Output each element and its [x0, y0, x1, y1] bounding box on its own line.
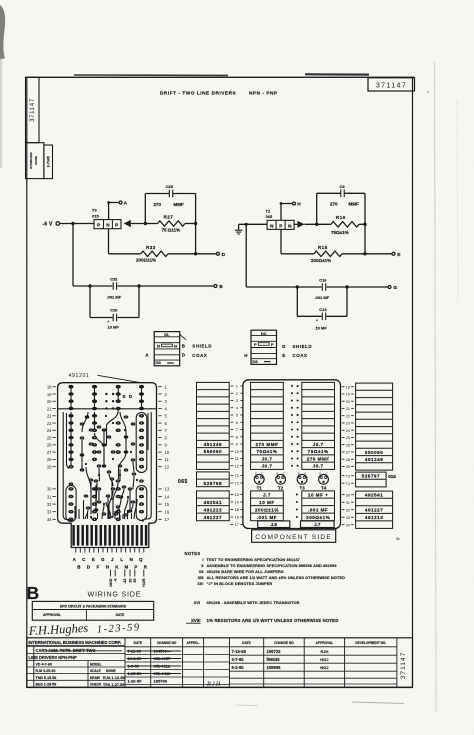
svg-text:3: 3: [236, 398, 238, 403]
node A terminal: [119, 201, 122, 204]
svg-text:RJA 1-12-58: RJA 1-12-58: [103, 676, 125, 680]
svg-text:J0.7: J0.7: [261, 456, 272, 461]
svg-text:21: 21: [346, 406, 350, 411]
svg-text:NOTES: NOTES: [185, 551, 201, 556]
svg-text:.001 MF: .001 MF: [315, 295, 330, 300]
svg-text:526798: 526798: [204, 481, 222, 486]
svg-text:30: 30: [47, 487, 52, 492]
component side board outline: [243, 380, 341, 529]
right date/change/approval entries: [232, 649, 329, 670]
wire down to C16 row: [245, 224, 247, 287]
svg-text:015: 015: [388, 474, 396, 479]
svg-text:DPD CIRCUIT & PACKAGING STANDA: DPD CIRCUIT & PACKAGING STANDARD: [60, 604, 127, 608]
svg-text:H: H: [244, 353, 247, 358]
svg-text:E: E: [92, 557, 95, 562]
wiring side board outline: [58, 383, 157, 548]
component side inner left ladder rows 13-16: [251, 491, 284, 521]
svg-text:15: 15: [235, 507, 239, 512]
svg-text:27: 27: [47, 450, 52, 455]
svg-text:31: 31: [346, 500, 350, 505]
svg-text:P: P: [254, 342, 257, 347]
wire C14 loop right vertical: [346, 287, 348, 316]
svg-text:3-7-60: 3-7-60: [232, 657, 245, 662]
svg-text:G: G: [282, 344, 286, 349]
transistor T3 (PNP box): [94, 220, 121, 229]
title block outer frame: [27, 638, 413, 687]
svg-text:SHIELD: SHIELD: [293, 344, 313, 349]
component side right outer stack rows 30-34: [356, 491, 393, 528]
svg-text:1-23-59: 1-23-59: [97, 622, 141, 635]
svg-text:J.8: J.8: [271, 522, 278, 527]
svg-text:5k: 5k: [396, 537, 400, 541]
svg-text:G: G: [393, 285, 397, 291]
wire C32 row right to node B: [117, 285, 214, 287]
svg-text:200Ω±1%: 200Ω±1%: [136, 258, 156, 263]
DPD circuit & packaging standard table: [32, 601, 153, 620]
junction dot C30 loop left: [88, 284, 91, 287]
svg-text:T1: T1: [235, 473, 240, 478]
svg-text:-6 V: -6 V: [43, 222, 53, 228]
svg-text:E: E: [298, 472, 300, 476]
svg-text:108906: 108906: [267, 665, 282, 670]
svg-text:16: 16: [165, 510, 170, 515]
connector block DL (left): [154, 332, 180, 366]
component side right outer stack rows 18-29: [356, 383, 393, 470]
svg-text:NONE: NONE: [106, 669, 117, 673]
svg-text:29: 29: [47, 464, 52, 469]
scan artifact: doubled top edge line: [74, 74, 228, 76]
svg-text:J0.7: J0.7: [313, 442, 324, 447]
wire C9 loop right vertical: [364, 193, 366, 254]
svg-text:L: L: [120, 557, 123, 562]
svg-text:J.7: J.7: [263, 492, 271, 497]
component side transistors T1-T4: [254, 472, 328, 491]
svg-text:T4: T4: [321, 486, 327, 491]
svg-text:75: 75: [162, 228, 168, 233]
connector pin letters row 1: [73, 557, 143, 562]
svg-text:12: 12: [235, 463, 239, 468]
svg-text:270 MMF: 270 MMF: [307, 456, 330, 461]
component side left outer stack rows 13-16: [197, 491, 230, 521]
svg-text:491298 - ASSEMBLE WITH JEDEC T: 491298 - ASSEMBLE WITH JEDEC TRANSISTOR: [207, 600, 300, 605]
svg-text:17: 17: [165, 517, 170, 522]
svg-text:C28: C28: [166, 184, 174, 189]
connector lead ticks: [76, 548, 144, 553]
COMPONENT SIDE caption box: [252, 530, 336, 543]
svg-text:32: 32: [346, 507, 350, 512]
svg-text:550090: 550090: [365, 450, 383, 455]
svg-text:C: C: [283, 472, 285, 476]
svg-text:R10: R10: [336, 215, 346, 220]
junction dot R10/loop: [363, 223, 366, 226]
wire T3 base to node A: [108, 203, 110, 220]
svg-text:+12R: +12R: [142, 578, 146, 587]
jumper J.8 box: [258, 521, 290, 528]
svg-text:TND 5-15-58: TND 5-15-58: [36, 676, 57, 680]
svg-text:J0.7: J0.7: [261, 464, 272, 469]
svg-text:T2: T2: [266, 208, 271, 213]
wire C14 row left: [297, 315, 321, 317]
svg-text:491227: 491227: [204, 515, 222, 520]
svg-text:33: 33: [346, 515, 350, 520]
svg-text:TPA 1-27-59: TPA 1-27-59: [103, 683, 124, 687]
svg-text:N: N: [130, 557, 133, 562]
top right drawing number box 371147: [368, 78, 415, 91]
svg-text:28: 28: [346, 457, 350, 462]
component side pin numbers 1-17 with T1/T2: [231, 384, 244, 528]
svg-text:DATE: DATE: [116, 613, 126, 617]
svg-text:13: 13: [165, 487, 170, 492]
wire lower lead to R15: [281, 253, 314, 255]
svg-text:16: 16: [235, 515, 239, 520]
svg-text:7: 7: [236, 427, 238, 432]
svg-text:75Ω±1%: 75Ω±1%: [331, 230, 349, 235]
junction dot loop/R15 wire: [363, 252, 366, 255]
wire C28 top right: [173, 193, 196, 195]
svg-text:24: 24: [47, 428, 52, 433]
svg-text:E: E: [319, 472, 321, 476]
svg-text:J0.7: J0.7: [313, 464, 324, 469]
title block horizontal lines (left/middle): [27, 647, 397, 685]
svg-text:C32: C32: [110, 277, 118, 282]
drawing border frame: [27, 77, 413, 687]
svg-text:D: D: [222, 252, 226, 258]
wire T3 lower lead: [108, 229, 110, 254]
svg-text:1% RESISTORS ARE 1/8 WATT UNLE: 1% RESISTORS ARE 1/8 WATT UNLESS OTHERWI…: [207, 618, 339, 623]
component side right outer stack T3/T4: [356, 472, 387, 487]
wire ground to T2: [239, 223, 268, 225]
svg-text:26: 26: [346, 442, 350, 447]
node H terminal: [293, 202, 296, 205]
scan specks bottom: [352, 702, 404, 704]
wire R15 to node E: [342, 253, 392, 255]
capacitor C14: [321, 313, 323, 321]
node E terminal: [392, 252, 395, 255]
svg-text:B: B: [219, 284, 223, 290]
junction dot C30 loop right: [137, 284, 140, 287]
svg-text:MMF: MMF: [349, 202, 359, 207]
svg-text:492541: 492541: [204, 500, 222, 505]
svg-text:C16: C16: [319, 278, 327, 283]
svg-text:10: 10: [165, 450, 170, 455]
svg-text:065: 065: [178, 479, 188, 485]
svg-text:A: A: [124, 201, 128, 207]
svg-text:CODE: CODE: [34, 156, 38, 165]
resistor R33: [141, 251, 168, 256]
resistor R15: [314, 251, 342, 256]
svg-text:T2: T2: [278, 486, 284, 491]
svg-text:XVIII: XVIII: [191, 618, 201, 623]
title block vertical dividers: [34, 638, 397, 687]
junction dot at A corner: [107, 201, 110, 204]
svg-text:“J” IN BLOCK DENOTES JUMPER: “J” IN BLOCK DENOTES JUMPER: [207, 581, 273, 586]
svg-text:2-7045: 2-7045: [46, 156, 50, 167]
svg-text:DS: DS: [155, 360, 161, 365]
svg-text:5: 5: [236, 413, 238, 418]
svg-text:36: 36: [133, 579, 137, 583]
svg-text:491249: 491249: [204, 442, 222, 447]
svg-text:f06539: f06539: [267, 657, 281, 662]
svg-text:25: 25: [47, 435, 52, 440]
svg-text:G: G: [101, 557, 105, 562]
wiring side pin numbers 18-34 (left): [47, 385, 56, 523]
svg-text:270: 270: [154, 202, 162, 207]
svg-text:200Ω±1%: 200Ω±1%: [306, 515, 330, 520]
svg-text:23: 23: [47, 421, 52, 426]
left edge box: 2-7045 (rotated): [44, 145, 53, 179]
wire C30 loop right vertical: [138, 286, 140, 318]
svg-text:10 MF: 10 MF: [108, 325, 120, 330]
svg-text:APPROVAL: APPROVAL: [316, 641, 334, 645]
svg-text:CHANGE NO: CHANGE NO: [274, 641, 294, 645]
svg-text:32: 32: [47, 502, 52, 507]
svg-text:26: 26: [47, 443, 52, 448]
svg-text:C14: C14: [319, 307, 327, 312]
wire R27 to loop: [185, 223, 196, 225]
svg-text:SCALE: SCALE: [90, 669, 101, 673]
svg-text:015: 015: [92, 213, 99, 218]
wire R33 to node D: [168, 253, 216, 255]
svg-text:C: C: [326, 472, 328, 476]
svg-text:7-15-59: 7-15-59: [232, 649, 247, 654]
wire C9 top left: [317, 192, 341, 194]
svg-text:+: +: [107, 320, 109, 324]
svg-text:F: F: [97, 565, 100, 570]
svg-text:DRAW: DRAW: [90, 676, 100, 680]
svg-text:T3: T3: [92, 208, 97, 213]
svg-text:RJH: RJH: [206, 680, 222, 688]
svg-text:065: 065: [266, 214, 273, 219]
svg-text:2: 2: [236, 391, 238, 396]
junction dot C14 loop left: [296, 285, 299, 288]
svg-text:25: 25: [346, 435, 350, 440]
wiring side copper pads: [68, 385, 144, 521]
svg-text:491227: 491227: [365, 508, 383, 513]
svg-text:R33: R33: [146, 245, 156, 250]
card edge connector fingers: [74, 525, 147, 546]
svg-text:P: P: [115, 223, 118, 228]
capacitor C32: [112, 282, 114, 290]
svg-text:M: M: [125, 565, 129, 570]
scan artifact: left edge smear: [0, 5, 5, 60]
svg-text:TEST TO ENGINEERING SPECIFICAT: TEST TO ENGINEERING SPECIFICATION 891147: [207, 557, 300, 562]
wire C9 loop left vertical: [316, 193, 318, 224]
svg-text:CHECK: CHECK: [90, 683, 102, 687]
svg-text:ALL RESISTORS ARE 1/2 WATT AND: ALL RESISTORS ARE 1/2 WATT AND ±5% UNLES…: [207, 575, 346, 580]
svg-text:ASSEMBLE TO ENGINEERING SPECIF: ASSEMBLE TO ENGINEERING SPECIFICATION 89…: [207, 563, 338, 568]
svg-text:SHIELD: SHIELD: [192, 344, 212, 349]
svg-text:WIRING SIDE: WIRING SIDE: [88, 590, 142, 599]
scan artifact: faint right vertical streak: [435, 62, 437, 712]
svg-text:20: 20: [47, 399, 52, 404]
svg-text:371147: 371147: [400, 652, 407, 680]
svg-text:6-2-60: 6-2-60: [232, 665, 245, 670]
wire lower lead to R33: [109, 253, 141, 255]
svg-text:30: 30: [128, 579, 132, 583]
wire C28 top left: [145, 193, 169, 195]
svg-text:N: N: [157, 343, 160, 348]
svg-text:17: 17: [235, 522, 239, 527]
svg-text:21: 21: [47, 406, 52, 411]
junction dot R27/loop: [194, 222, 197, 225]
svg-text:DATE: DATE: [242, 641, 250, 645]
left edge box: drawing number 371147 (rotated): [26, 77, 40, 142]
svg-text:C9: C9: [340, 184, 346, 189]
wire C30 row left: [90, 317, 112, 319]
T3 emitter arrow: [124, 220, 131, 227]
svg-text:E: E: [276, 472, 278, 476]
svg-text:T3: T3: [346, 473, 351, 478]
wire T2 lower lead: [280, 229, 282, 253]
svg-text:I: I: [202, 557, 203, 562]
svg-text:STANDARD: STANDARD: [29, 151, 33, 168]
svg-text:75Ω±1%: 75Ω±1%: [256, 449, 277, 454]
resistor R10: [331, 222, 359, 227]
svg-text:270: 270: [330, 202, 338, 207]
svg-text:371147: 371147: [30, 98, 36, 122]
junction dot C32 branch: [71, 222, 74, 225]
leader line to B: [180, 334, 186, 340]
svg-text:10 MF: 10 MF: [259, 500, 275, 505]
svg-text:R27: R27: [164, 214, 174, 219]
svg-text:34: 34: [47, 517, 52, 522]
svg-text:E: E: [282, 353, 285, 358]
svg-text:19: 19: [346, 392, 350, 397]
junction dot loop/R33 wire: [194, 252, 197, 255]
junction dot C28 loop: [144, 222, 147, 225]
svg-text:DS: DS: [252, 359, 258, 364]
svg-text:492541: 492541: [365, 493, 383, 498]
wiring side pin numbers 1-17 (right): [158, 385, 170, 523]
wire down to C32 row: [72, 224, 74, 287]
voltage labels under connector: [109, 570, 146, 588]
svg-text:DC: DC: [261, 331, 267, 336]
svg-text:11: 11: [165, 457, 170, 462]
svg-text:-6: -6: [114, 579, 118, 582]
wiring side traces: [58, 386, 157, 522]
svg-text:P: P: [134, 565, 137, 570]
svg-text:T3: T3: [300, 486, 306, 491]
svg-text:C: C: [304, 472, 306, 476]
svg-text:270 MMF: 270 MMF: [255, 442, 278, 447]
svg-text:22: 22: [346, 413, 350, 418]
transistor T2 (NPN box): [267, 220, 294, 229]
svg-text:-12: -12: [123, 579, 127, 584]
svg-text:.001 MF: .001 MF: [257, 515, 277, 520]
wire T2 base to node H: [280, 204, 282, 221]
svg-text:COAX: COAX: [192, 353, 207, 358]
wire R10 to loop: [359, 223, 365, 225]
svg-text:DATE: DATE: [134, 641, 142, 645]
component side pin numbers 18-34 with T3/T4: [342, 384, 354, 527]
svg-text:550090: 550090: [204, 449, 222, 454]
wire C16 row left: [246, 286, 321, 288]
svg-text:6: 6: [236, 420, 238, 425]
svg-text:LINE DRIVERS NPN-PNP: LINE DRIVERS NPN-PNP: [29, 655, 77, 660]
svg-text:APPRO..: APPRO..: [187, 641, 200, 645]
wire -6V to T3: [59, 223, 94, 225]
svg-text:8: 8: [236, 434, 238, 439]
svg-text:COAX: COAX: [293, 353, 308, 358]
svg-text:106723: 106723: [267, 649, 282, 654]
svg-text:18: 18: [346, 384, 350, 389]
wire C16 row right to node G: [327, 286, 389, 288]
junction dot at H corner: [280, 202, 283, 205]
svg-text:23: 23: [346, 421, 350, 426]
node D terminal: [216, 252, 219, 255]
svg-text:RJH: RJH: [320, 649, 328, 654]
svg-text:12: 12: [165, 464, 170, 469]
component side left outer stack T1/T2: [197, 472, 230, 487]
svg-text:491213: 491213: [365, 515, 383, 520]
svg-text:Ω±1%: Ω±1%: [168, 228, 181, 233]
jumper J.7 box: [301, 521, 335, 528]
component side inner right ladder rows 1-12: [302, 382, 335, 469]
svg-text:185798: 185798: [154, 678, 168, 683]
svg-text:10 MF: 10 MF: [316, 325, 328, 330]
svg-text:P: P: [279, 223, 282, 228]
wire C14 row right: [327, 315, 348, 317]
svg-text:XVI: XVI: [194, 600, 200, 605]
svg-text:75Ω±1%: 75Ω±1%: [308, 449, 329, 454]
component side inner left ladder rows 1-12: [251, 382, 284, 469]
svg-text:371147: 371147: [376, 83, 407, 90]
svg-text:GND: GND: [109, 578, 113, 587]
wiring side via dots: [85, 415, 138, 518]
svg-text:9: 9: [236, 442, 238, 447]
svg-text:DL: DL: [164, 332, 170, 337]
T2 emitter arrow: [297, 221, 304, 228]
svg-text:491201: 491201: [69, 373, 90, 379]
wire C28 loop left vertical: [144, 194, 146, 224]
node B terminal: [214, 285, 217, 288]
svg-text:APPROVAL: APPROVAL: [43, 613, 61, 617]
svg-text:C30: C30: [110, 308, 118, 313]
svg-text:22: 22: [47, 414, 52, 419]
svg-text:526797: 526797: [362, 474, 380, 479]
svg-text:13: 13: [235, 492, 239, 497]
svg-text:19: 19: [47, 392, 52, 397]
resistor R27: [158, 221, 185, 226]
svg-text:T1: T1: [257, 486, 263, 491]
svg-text:200Ω±1%: 200Ω±1%: [311, 258, 331, 263]
svg-text:II: II: [201, 563, 203, 568]
svg-text:S D: S D: [123, 394, 134, 399]
svg-text:10 MF +: 10 MF +: [308, 492, 328, 497]
svg-text:Q: Q: [139, 557, 143, 562]
svg-text:14: 14: [165, 494, 170, 499]
svg-text:E: E: [255, 472, 257, 476]
svg-text:27: 27: [346, 450, 350, 455]
svg-text:J.7: J.7: [314, 522, 321, 527]
svg-text:+: +: [316, 319, 318, 323]
svg-text:COMPONENT SIDE: COMPONENT SIDE: [255, 534, 332, 541]
svg-text:C: C: [261, 472, 263, 476]
svg-text:P: P: [271, 342, 274, 347]
svg-text:491296 BARE WIRE FOR ALL JUMPE: 491296 BARE WIRE FOR ALL JUMPERS: [207, 569, 284, 574]
svg-text:.001 MF: .001 MF: [308, 507, 328, 512]
junction dot C9 loop: [315, 223, 318, 226]
svg-text:NPN - PNP: NPN - PNP: [249, 91, 278, 96]
svg-text:15: 15: [165, 502, 170, 507]
wire emitter to R10: [304, 223, 331, 225]
capacitor C28: [168, 190, 170, 198]
svg-text:33: 33: [47, 510, 52, 515]
wire C9 top right: [344, 192, 365, 194]
svg-text:28: 28: [47, 457, 52, 462]
svg-text:491213: 491213: [204, 507, 222, 512]
svg-text:MMF: MMF: [174, 202, 184, 207]
